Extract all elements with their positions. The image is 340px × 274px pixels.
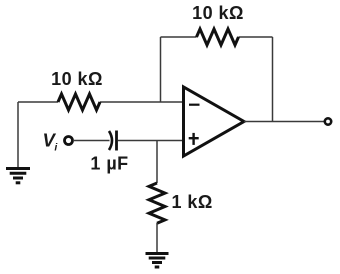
- wire: capacitor to noninverting input: [118, 140, 185, 142]
- svg-text:10 kΩ: 10 kΩ: [51, 69, 103, 89]
- svg-text:1 µF: 1 µF: [90, 154, 128, 174]
- resistor R (input 10 kΩ): [58, 94, 100, 110]
- svg-text:10 kΩ: 10 kΩ: [192, 3, 244, 23]
- op-amp minus input marker: [189, 104, 200, 106]
- resistor Rf (feedback 10 kΩ): [197, 29, 239, 45]
- wire: 1 kΩ to ground: [156, 223, 158, 253]
- svg-text:1 kΩ: 1 kΩ: [172, 192, 213, 212]
- terminal output: [325, 118, 331, 124]
- ground (bottom): [146, 254, 169, 268]
- resistor R (1 kΩ): [149, 183, 165, 223]
- wire: Vi to capacitor: [73, 140, 110, 142]
- capacitor C (1 µF): [109, 131, 117, 151]
- op-amp U1: [184, 87, 245, 156]
- wire: junction down to 1 kΩ: [156, 141, 158, 184]
- wire: inverting input run, left segment: [18, 101, 184, 103]
- wire: left vertical to ground: [17, 102, 19, 168]
- op-amp plus input marker: [189, 133, 199, 145]
- wire: feedback loop: [161, 37, 273, 122]
- ground (left): [6, 169, 30, 183]
- terminal Vi: [65, 137, 73, 145]
- wire: output: [244, 121, 325, 123]
